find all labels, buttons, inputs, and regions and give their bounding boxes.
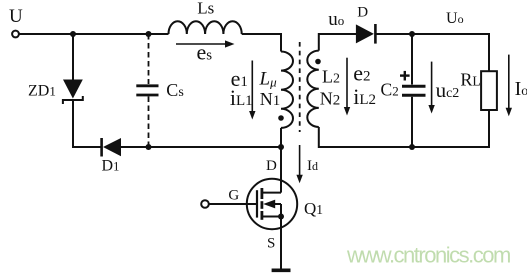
- primary polarity dot: [278, 115, 284, 121]
- channel segment top: [260, 188, 263, 199]
- svg-text:D1: D1: [102, 158, 120, 175]
- svg-text:U: U: [9, 6, 23, 27]
- wire top rail diode D to RL: [375, 33, 490, 35]
- wire C2 bottom lead: [411, 97, 413, 147]
- wire RL top lead: [488, 34, 490, 71]
- junction node C2 top: [409, 31, 415, 37]
- transformer core (dashed): [299, 42, 301, 132]
- diode D1: [100, 138, 103, 157]
- secondary polarity dot: [315, 59, 321, 65]
- wire top rail from Ls to primary: [242, 33, 282, 35]
- channel segment bottom: [260, 211, 263, 220]
- wire gate lead: [209, 203, 256, 205]
- wire Cs bottom lead (dashed): [148, 97, 150, 148]
- wire source lead: [280, 217, 282, 270]
- junction node ZD1 branch: [70, 31, 76, 37]
- svg-text:Q1: Q1: [304, 199, 323, 218]
- wire primary bottom lead: [280, 128, 282, 147]
- svg-text:G: G: [228, 187, 239, 203]
- input terminal U: [12, 31, 19, 38]
- junction node C2 bottom: [409, 144, 415, 150]
- body arrow (substrate): [263, 200, 275, 209]
- gate terminal: [201, 200, 209, 208]
- drain internal connection: [261, 192, 281, 194]
- transistor Q1 MOSFET body circle: [247, 179, 297, 229]
- arrow e1/iL1: [251, 61, 253, 114]
- svg-text:Id: Id: [307, 158, 318, 174]
- svg-text:Ls: Ls: [197, 0, 214, 18]
- arrow e2/iL2: [346, 58, 348, 109]
- arrow Id (drain current): [299, 145, 301, 177]
- wire drain lead: [280, 147, 282, 193]
- svg-text:S: S: [267, 235, 275, 251]
- wire bottom left rail ZD1 to D1: [73, 146, 101, 148]
- junction node Cs bottom: [146, 144, 152, 150]
- wire ZD1 top lead: [72, 34, 74, 80]
- transformer primary winding N1: [281, 52, 293, 128]
- arrow es: [176, 43, 227, 45]
- wire C2 top lead: [411, 34, 413, 85]
- transformer secondary winding N2: [307, 51, 319, 127]
- ground: [272, 268, 291, 272]
- wire Cs top lead (dashed): [148, 34, 150, 84]
- zener diode ZD1: [63, 80, 83, 99]
- wire ZD1 bottom lead: [72, 100, 74, 148]
- wire primary top lead: [280, 33, 282, 52]
- arrow uc2: [431, 62, 433, 107]
- arrow Io: [508, 55, 510, 110]
- svg-text:uo: uo: [328, 9, 344, 30]
- wire RL bottom lead: [488, 110, 490, 147]
- plus sign C2 polarity: [400, 74, 410, 76]
- svg-text:D: D: [266, 158, 277, 174]
- channel segment middle: [260, 201, 263, 209]
- wire secondary bottom rail: [319, 127, 490, 147]
- svg-text:ZD1: ZD1: [28, 83, 56, 100]
- wire secondary top lead: [319, 34, 356, 51]
- svg-text:Uo: Uo: [446, 10, 464, 27]
- junction node Cs branch: [146, 31, 152, 37]
- wire top rail from terminal to Ls: [19, 33, 169, 35]
- svg-text:www.cntronics.com: www.cntronics.com: [346, 242, 510, 267]
- diode D: [356, 24, 374, 43]
- junction node drain: [278, 144, 284, 150]
- svg-text:D: D: [357, 5, 368, 21]
- resistor RL: [481, 71, 497, 110]
- wire bottom left rail D1 to drain node: [121, 146, 281, 148]
- capacitor Cs: [136, 84, 158, 87]
- body-source junction dot: [278, 214, 284, 220]
- gate bar: [256, 190, 258, 217]
- source internal connection: [262, 216, 281, 218]
- inductor Ls: [169, 21, 242, 34]
- capacitor C2: [402, 85, 426, 88]
